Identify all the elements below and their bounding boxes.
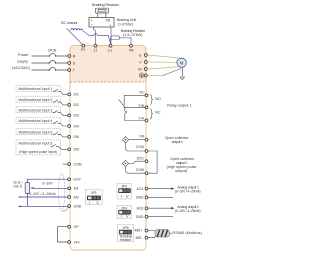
terminal COM (left) xyxy=(68,162,82,166)
terminal PB xyxy=(129,44,134,52)
switch S5 (Multifunctional input 5 / high speed pulse to DI5) xyxy=(16,140,68,155)
FM diamond Q1 xyxy=(122,137,145,152)
JP4 xyxy=(117,206,132,219)
terminal P1 xyxy=(81,44,85,52)
svg-text:M: M xyxy=(180,60,184,65)
svg-text:DI6: DI6 xyxy=(74,135,80,139)
terminal T xyxy=(68,68,76,72)
svg-text:0–10V: 0–10V xyxy=(42,181,53,185)
terminal DI4 (left) xyxy=(68,124,79,128)
wire U to motor xyxy=(148,55,179,58)
terminal DI1 (left) xyxy=(68,93,79,97)
svg-text:T/C: T/C xyxy=(139,90,145,94)
svg-text:GND: GND xyxy=(136,215,144,219)
svg-text:GND: GND xyxy=(74,204,82,208)
svg-text:Multifunctional input 5: Multifunctional input 5 xyxy=(19,142,53,146)
svg-text:U: U xyxy=(139,53,142,57)
wire L3 phase with MCB breaker pole xyxy=(32,68,68,71)
terminal 485- (right) xyxy=(135,236,148,240)
svg-text:DI1: DI1 xyxy=(74,93,80,97)
terminal GND (left) xyxy=(68,204,82,208)
svg-text:Multifunctional input 2: Multifunctional input 2 xyxy=(19,98,53,102)
terminal T/A (right) xyxy=(139,116,148,122)
terminal 485+ (right) xyxy=(134,229,147,233)
svg-text:JP5: JP5 xyxy=(123,226,129,230)
braking resistor R2 body + wires (+) to PB xyxy=(110,38,113,44)
terminal T/B (right) xyxy=(139,104,148,109)
switch S1 (Multifunctional input 1 to DI1) xyxy=(16,86,68,95)
svg-text:(0–10V / 4–20mA): (0–10V / 4–20mA) xyxy=(175,209,201,213)
relay contact K1 xyxy=(119,95,146,120)
svg-text:Multifunctional input 3: Multifunctional input 3 xyxy=(19,108,53,112)
shield to GND hook xyxy=(62,208,68,212)
svg-text:485+: 485+ xyxy=(134,229,142,233)
svg-text:supply: supply xyxy=(17,59,28,63)
svg-text:OP: OP xyxy=(74,225,80,229)
svg-text:Relay output 1: Relay output 1 xyxy=(167,103,192,107)
svg-text:JP3: JP3 xyxy=(121,185,127,189)
braking resistor stubs xyxy=(98,13,106,18)
terminal DO1 (right) xyxy=(137,157,148,163)
switch S2 (Multifunctional input 2 to DI2) xyxy=(16,96,68,105)
wire V to motor xyxy=(148,61,177,63)
DC reactor right leg to (+) with hop over (-) wire xyxy=(83,31,111,45)
terminal DI2 (left) xyxy=(68,103,79,107)
terminal T/C (right) xyxy=(139,90,148,97)
svg-text:RS485 (Modbus): RS485 (Modbus) xyxy=(172,231,202,235)
svg-text:(High speed pulse input): (High speed pulse input) xyxy=(19,150,57,154)
wiper arrow to AI1 xyxy=(30,187,34,189)
terminal 24V (left) xyxy=(68,240,81,244)
svg-text:AI2: AI2 xyxy=(74,195,79,199)
terminal COM #2 (right) xyxy=(136,168,148,175)
terminal S xyxy=(68,61,76,65)
COM-COM bracket xyxy=(148,151,157,173)
svg-text:PB: PB xyxy=(106,18,111,22)
DO1 diamond Q2 xyxy=(122,160,145,173)
terminal PE with earth symbol xyxy=(139,73,147,78)
terminal DI5 (left) xyxy=(68,148,79,152)
terminal +10V (left) xyxy=(68,178,82,182)
terminal R xyxy=(68,54,76,58)
svg-text:DI3: DI3 xyxy=(74,114,80,118)
JP3 xyxy=(117,184,132,200)
terminal AI2 (left) xyxy=(68,195,79,199)
svg-text:10k Ω: 10k Ω xyxy=(13,185,23,189)
svg-text:resistor: resistor xyxy=(120,238,132,242)
DC reactor left leg to P1 xyxy=(67,28,84,45)
svg-text:I: I xyxy=(121,195,122,199)
terminal FM (right) xyxy=(139,135,148,142)
svg-text:Multifunctional input 6: Multifunctional input 6 xyxy=(19,130,53,134)
svg-text:NC: NC xyxy=(155,111,161,115)
AO2 wire + arrow xyxy=(148,207,172,209)
svg-text:DI4: DI4 xyxy=(74,124,80,128)
svg-text:R: R xyxy=(73,54,76,58)
svg-text:FM: FM xyxy=(139,135,144,139)
svg-text:DO1: DO1 xyxy=(137,157,144,161)
svg-text:+10V: +10V xyxy=(73,178,82,182)
svg-text:output 2: output 2 xyxy=(176,161,188,165)
terminal DI3 (left) xyxy=(68,114,79,118)
svg-text:Multifunctional input 1: Multifunctional input 1 xyxy=(19,87,53,91)
terminal COM #1 (right) xyxy=(136,145,148,153)
svg-text:DI5: DI5 xyxy=(74,148,80,152)
svg-text:GND: GND xyxy=(136,196,144,200)
svg-text:Multifunctional input 4: Multifunctional input 4 xyxy=(19,119,53,123)
svg-text:I: I xyxy=(121,215,122,219)
svg-text:Braking Resistor: Braking Resistor xyxy=(92,2,120,7)
svg-text:COM: COM xyxy=(74,162,82,166)
switch S6 (Multifunctional input 6 to DI6) xyxy=(16,129,68,137)
terminal AO2 (right) xyxy=(136,207,147,211)
svg-text:NO: NO xyxy=(155,97,161,101)
svg-text:JP1: JP1 xyxy=(91,191,97,195)
svg-text:PB: PB xyxy=(129,48,134,52)
wire L1 phase with MCB breaker pole xyxy=(32,54,68,57)
terminal (-) xyxy=(94,44,98,52)
terminal GND #2 (right) xyxy=(136,215,148,219)
JP1 xyxy=(85,190,102,205)
terminal GND #1 (right) xyxy=(136,196,148,200)
terminal AI1 (left) xyxy=(68,187,79,191)
svg-text:(+): (+) xyxy=(108,48,113,52)
power section (peach) xyxy=(70,46,146,82)
braces NO / NC xyxy=(150,95,153,119)
svg-text:DI2: DI2 xyxy=(74,103,80,107)
svg-text:W: W xyxy=(138,67,142,71)
svg-text:P1: P1 xyxy=(81,48,85,52)
svg-text:I: I xyxy=(89,201,90,205)
svg-text:(>37kW): (>37kW) xyxy=(118,23,134,27)
AI2 wire with left arrow xyxy=(18,196,21,198)
terminal V xyxy=(139,60,147,64)
wire W to motor xyxy=(148,67,179,69)
svg-text:Braking Unit: Braking Unit xyxy=(117,18,137,22)
dashed separator xyxy=(70,81,146,83)
inverter main outline box xyxy=(70,46,146,250)
braking unit U1 xyxy=(89,18,114,28)
ground (motor frame) xyxy=(180,77,184,80)
terminal U xyxy=(139,53,147,57)
twisted pair cable xyxy=(155,230,170,237)
svg-text:0–10V / 4–20mA: 0–10V / 4–20mA xyxy=(29,192,56,196)
wire braking unit to (-) xyxy=(93,27,95,46)
svg-text:Power: Power xyxy=(18,53,29,57)
svg-text:output): output) xyxy=(175,169,188,173)
terminal (+) xyxy=(108,44,113,52)
wire L2 phase with MCB breaker pole xyxy=(32,61,68,64)
svg-text:MCB: MCB xyxy=(48,49,57,53)
svg-text:AI1: AI1 xyxy=(74,187,79,191)
terminal DI6 (left) xyxy=(68,135,79,139)
svg-text:(-): (-) xyxy=(94,48,98,52)
svg-text:(0–10V / 4–20mA): (0–10V / 4–20mA) xyxy=(175,190,201,194)
switch S3 (Multifunctional input 3 to DI3) xyxy=(16,107,68,116)
motor M1 xyxy=(177,58,186,67)
svg-text:output 1: output 1 xyxy=(172,140,184,144)
svg-text:24V: 24V xyxy=(74,240,81,244)
shielded cable ellipse xyxy=(59,173,65,210)
switch S4 (Multifunctional input 4 to DI4) xyxy=(16,117,68,126)
terminal W xyxy=(138,67,147,71)
svg-text:(1AC/3AC): (1AC/3AC) xyxy=(12,66,31,70)
wire PE earth to motor xyxy=(148,68,183,77)
JP5 terminal resistor xyxy=(118,225,134,243)
potentiometer RP xyxy=(27,179,67,182)
svg-text:DC reactor: DC reactor xyxy=(61,21,79,25)
svg-text:485-: 485- xyxy=(135,236,143,240)
svg-text:AO1: AO1 xyxy=(136,187,143,191)
GND wire with left arrow xyxy=(18,206,21,208)
braking resistor (top) body xyxy=(96,8,109,13)
AO1 wire + arrow xyxy=(148,188,172,190)
svg-text:COM: COM xyxy=(136,168,144,172)
COM stub xyxy=(63,163,68,165)
svg-text:AO2: AO2 xyxy=(136,207,143,211)
svg-text:COM: COM xyxy=(136,145,144,149)
svg-text:T/A: T/A xyxy=(139,116,145,120)
DC reactor coil L1 xyxy=(71,29,83,30)
svg-text:(1.5–37kW): (1.5–37kW) xyxy=(123,33,143,37)
terminal OP (left) xyxy=(68,225,79,229)
terminal AO1 (right) xyxy=(136,187,147,191)
wire braking unit to (+) xyxy=(110,27,112,46)
